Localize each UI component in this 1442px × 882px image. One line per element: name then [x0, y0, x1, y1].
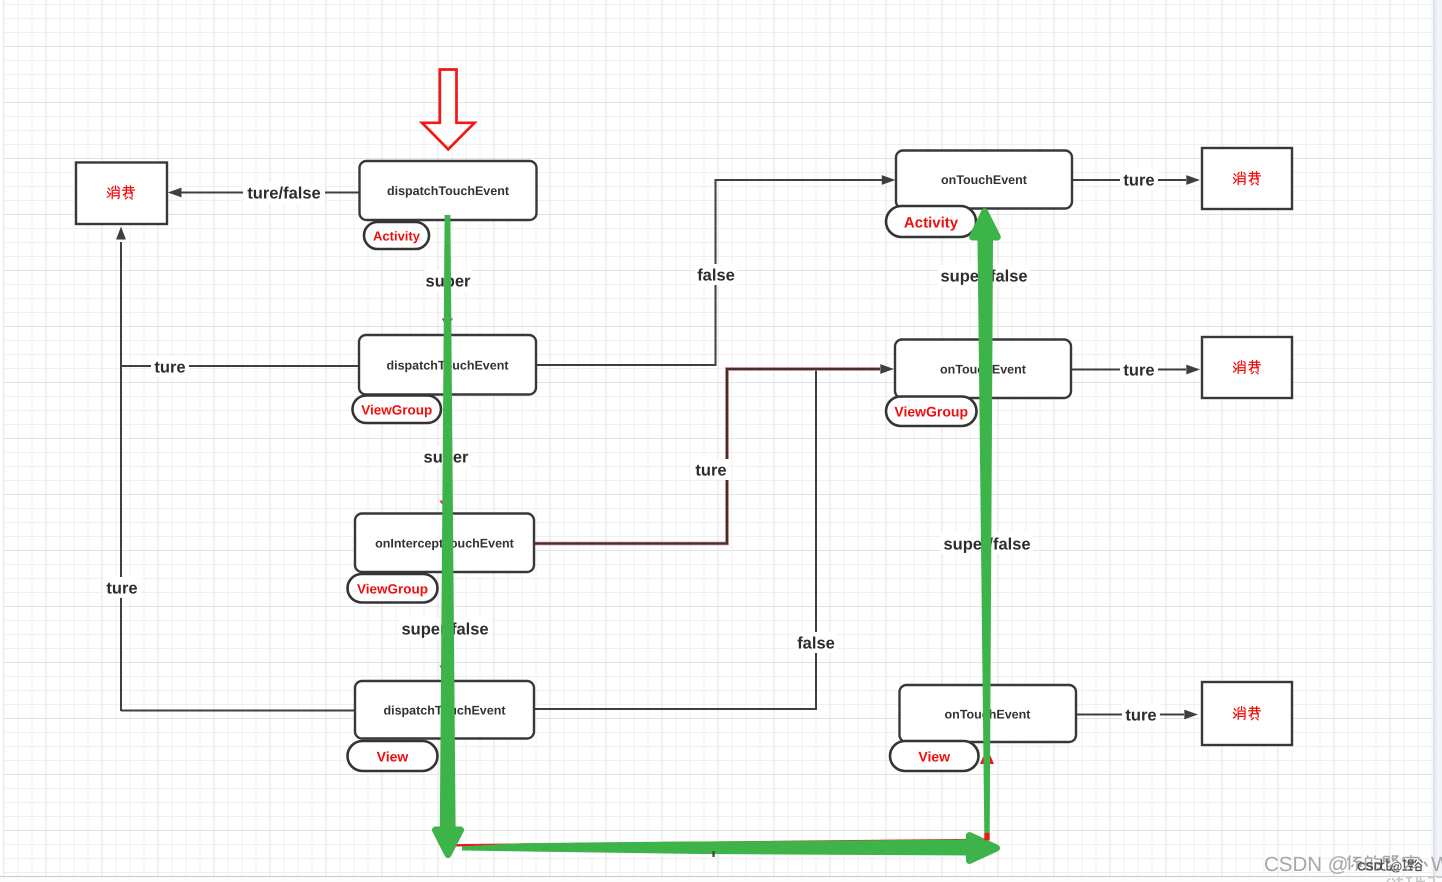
box onTouchEvent (View) — [900, 685, 1077, 742]
label ture middle — [692, 459, 730, 480]
green arrow up — [978, 241, 994, 834]
watermark bottom faint fragment — [1387, 877, 1442, 882]
box dispatchTouchEvent (View) — [355, 681, 534, 739]
wire ture red underlay: onInterceptTouchEvent right, up to onTouchEvent(ViewGroup) — [533, 369, 880, 544]
arrowhead into consume row1 right — [1186, 175, 1200, 185]
svg-text:onTouchEvent: onTouchEvent — [941, 173, 1028, 187]
svg-text:CSD: CSD — [1357, 860, 1383, 874]
green arrowhead up — [973, 212, 998, 237]
box consume row2 right — [1202, 337, 1292, 398]
red super arrow 1 — [442, 221, 453, 327]
label super/false row3 — [399, 618, 491, 639]
box consume row1 right — [1202, 148, 1292, 209]
svg-text:CSDN @: CSDN @ — [1264, 853, 1349, 876]
svg-text:Activity: Activity — [904, 215, 959, 232]
svg-text:ture: ture — [1123, 362, 1154, 380]
arrowhead into consume row4 right — [1184, 710, 1198, 720]
red corner square — [984, 833, 989, 841]
label ture/false — [243, 182, 325, 203]
label super/false right mid — [941, 533, 1033, 554]
arrowhead into consume left box — [168, 188, 182, 198]
arrowhead into onTouchEvent(Activity) — [882, 175, 896, 185]
watermark hanzi yin gu small — [1403, 859, 1423, 871]
svg-text:false: false — [697, 267, 735, 285]
wire ture row4 right: onTouchEvent(View) to consume — [1075, 714, 1184, 716]
pill ViewGroup right — [886, 397, 977, 427]
svg-text:ture: ture — [695, 462, 726, 480]
box onTouchEvent (Activity) — [896, 151, 1072, 209]
svg-text:Activity: Activity — [373, 229, 421, 244]
svg-text:View: View — [377, 749, 409, 765]
box consume left — [76, 163, 167, 225]
wire ture row2: dispatchTouchEvent(ViewGroup) to left vertical — [121, 365, 360, 367]
red super arrow 3 — [439, 574, 452, 676]
svg-text:@: @ — [1391, 860, 1403, 874]
wire ture row1 right: onTouchEvent(Activity) to consume — [1071, 179, 1186, 181]
wire ture/false: dispatchTouchEvent(Activity) to consume box — [180, 192, 359, 194]
label ture left vertical — [103, 577, 141, 598]
green arrow down — [440, 215, 456, 827]
arrowhead into consume row2 right — [1186, 365, 1200, 375]
green arrowhead down — [436, 830, 461, 855]
svg-text:ture/false: ture/false — [247, 185, 320, 203]
arrowhead into onTouchEvent(ViewGroup) — [880, 364, 894, 374]
wire ture: left vertical up into consume box — [120, 242, 122, 711]
svg-text:false: false — [797, 635, 835, 653]
label super row1 — [424, 270, 472, 291]
label super row2 — [422, 446, 470, 467]
label ture left row2 — [151, 356, 189, 377]
svg-text:ture: ture — [106, 580, 137, 598]
arrowhead up into consume left box bottom — [116, 227, 126, 240]
box onInterceptTouchEvent — [355, 514, 534, 573]
label ture row4 right — [1122, 704, 1160, 725]
pill View right — [890, 741, 979, 771]
pill Activity right — [886, 206, 976, 237]
svg-text:View: View — [918, 749, 950, 765]
label false upper — [695, 264, 737, 285]
svg-text:W: W — [1431, 853, 1442, 876]
dark tick bottom — [712, 851, 714, 857]
box dispatchTouchEvent (Activity) — [360, 161, 537, 220]
label ture row2 right — [1120, 359, 1158, 380]
pill ViewGroup row3 left — [348, 574, 438, 603]
wire ture row2 right: onTouchEvent(ViewGroup) to consume — [1070, 369, 1186, 371]
watermark hanzi bi small — [1382, 859, 1391, 870]
box consume row4 right — [1202, 682, 1292, 745]
watermark CSDN small dark — [1357, 860, 1402, 874]
text consume (xiao fei glyphs) — [107, 186, 134, 199]
red annotation line bottom — [453, 763, 987, 845]
red super arrow 2 — [439, 396, 453, 510]
svg-text:ViewGroup: ViewGroup — [894, 404, 968, 420]
label false lower — [795, 632, 837, 653]
box onTouchEvent (ViewGroup) — [895, 340, 1071, 399]
svg-text:ture: ture — [154, 359, 185, 377]
wire false: dispatchTouchEvent(ViewGroup) right, up to onTouchEvent(Activity) — [535, 180, 882, 365]
wire row4 horizontal: dispatchTouchEvent(View) to left vertical — [121, 710, 356, 712]
watermark hanzi ni — [1348, 856, 1362, 871]
svg-text:ViewGroup: ViewGroup — [361, 403, 432, 418]
pill View row4 left — [348, 741, 438, 771]
watermark CSDN large — [1264, 853, 1442, 876]
svg-text:ViewGroup: ViewGroup — [357, 582, 428, 597]
svg-text:ture: ture — [1123, 172, 1154, 190]
green arrow right — [462, 839, 966, 855]
label super/false right top — [938, 265, 1030, 286]
green arrowhead right — [970, 836, 997, 861]
svg-text:ture: ture — [1125, 707, 1156, 725]
pill ViewGroup row2 left — [353, 396, 442, 424]
box dispatchTouchEvent (ViewGroup) — [359, 335, 536, 395]
watermark hanzi dot — [1424, 862, 1427, 867]
label ture row1 right — [1120, 169, 1158, 190]
wire false 2: dispatchTouchEvent(View) right, up to ture wire — [535, 368, 816, 709]
pill Activity left — [364, 222, 429, 249]
wire ture dark overlay: onInterceptTouchEvent to onTouchEvent(ViewGroup) — [533, 369, 880, 544]
watermark hanzi jian — [1384, 856, 1399, 870]
svg-text:dispatchTouchEvent: dispatchTouchEvent — [387, 184, 510, 198]
red up arrowhead mid right — [980, 748, 994, 764]
red hollow arrow top — [422, 70, 475, 150]
watermark hanzi ding — [1403, 855, 1419, 870]
watermark hanzi de — [1366, 856, 1382, 870]
red up arrow tip top right — [980, 207, 989, 218]
